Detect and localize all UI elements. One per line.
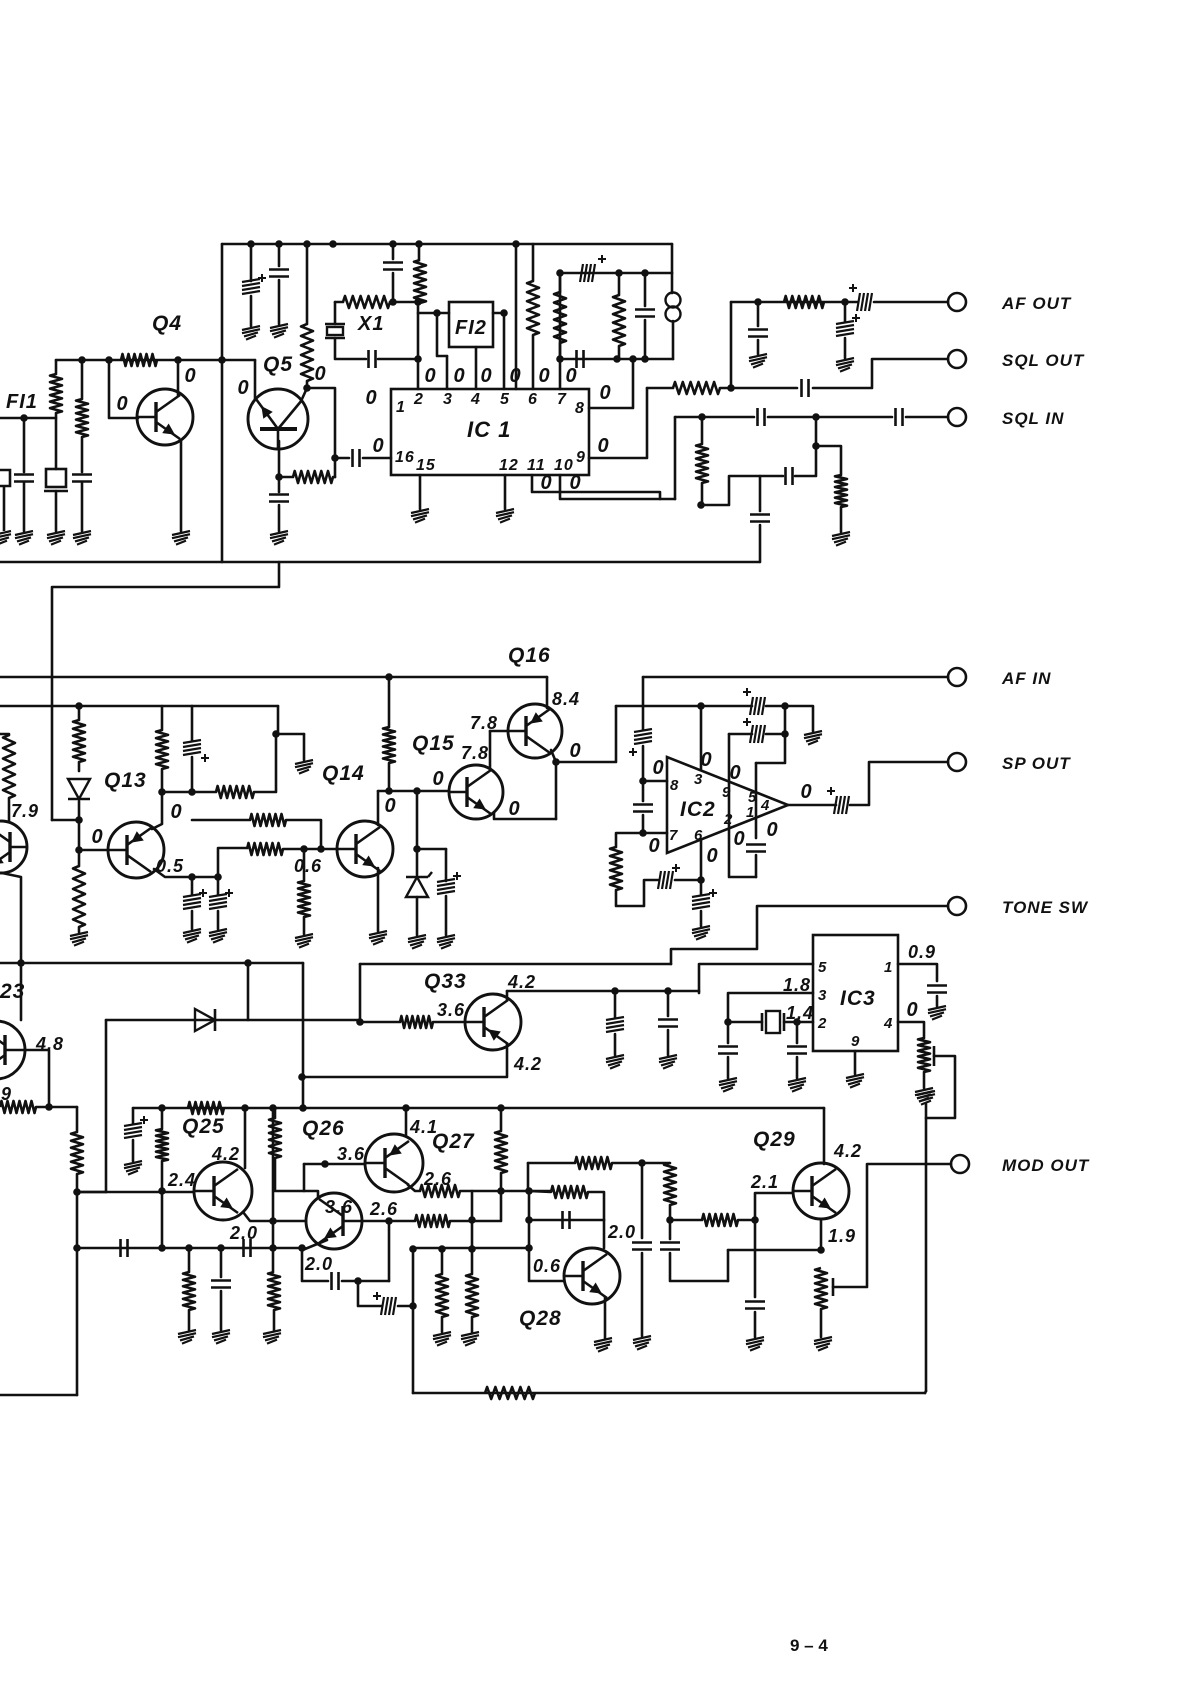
svg-text:2.0: 2.0	[607, 1222, 636, 1242]
wire AF OUT cap stub	[757, 302, 760, 326]
wire res to corner	[254, 734, 304, 792]
resistor x273	[268, 1272, 280, 1310]
wire Q26 base res row	[389, 1220, 415, 1223]
resistor x472	[466, 1274, 478, 1317]
wire cap to dot	[342, 1280, 389, 1283]
label 0.6 Q28	[533, 1256, 561, 1276]
pin 12 of IC1	[499, 457, 519, 474]
svg-text:IC3: IC3	[840, 987, 876, 1010]
junction x473 row1220	[468, 1216, 476, 1224]
svg-text:4.2: 4.2	[211, 1144, 240, 1164]
wire low row left	[77, 1247, 305, 1250]
test point 0 at Q5 base	[237, 377, 248, 399]
wire Q14 collector	[377, 791, 380, 825]
wire crystal right lead	[784, 1021, 797, 1024]
svg-text:Q15: Q15	[412, 732, 455, 755]
ground collector cap	[659, 1055, 677, 1069]
junction 4.1 row	[638, 1159, 646, 1167]
junction row1 right	[781, 702, 789, 710]
ground crystal right	[788, 1078, 806, 1092]
wire cap to ground	[754, 1312, 757, 1337]
wire resonator to ground	[55, 491, 58, 531]
pin 2 of IC3	[817, 1015, 827, 1032]
wire link to diode leg	[77, 1191, 106, 1194]
wire sql bottom cap stub	[759, 476, 762, 511]
resistor above FI1 resonator	[50, 374, 62, 413]
wire cap stub IC2	[642, 781, 645, 801]
svg-text:Q5: Q5	[263, 353, 293, 376]
capacitor Q26 emitter	[332, 1272, 339, 1290]
label Q26	[302, 1117, 345, 1140]
ground feedback	[295, 760, 313, 774]
junction tank row	[556, 355, 564, 363]
junction diode row	[413, 845, 421, 853]
capacitor to IC1 pin16	[353, 449, 360, 467]
wire resonator column	[55, 360, 58, 374]
wire row1 right	[766, 705, 785, 708]
svg-text:SP OUT: SP OUT	[1002, 754, 1071, 773]
junction Q5 emitter	[275, 473, 283, 481]
wire to ground	[220, 1291, 223, 1330]
svg-text:FI1: FI1	[6, 391, 38, 413]
ground second ecap	[209, 929, 227, 943]
svg-text:3: 3	[694, 771, 703, 788]
test point 0 at pin16	[372, 435, 383, 457]
svg-text:0: 0	[569, 740, 580, 762]
wire TONE SW	[671, 906, 948, 964]
junction at long vertical	[218, 356, 226, 364]
junction Q26 cap row	[354, 1277, 362, 1285]
wire to ground	[727, 1057, 730, 1078]
electrolytic capacitor second	[209, 889, 233, 909]
wire diode row left leg	[105, 1020, 108, 1192]
junction x529 cap row	[525, 1216, 533, 1224]
wire AF OUT ecap stub	[844, 302, 847, 322]
junction FI2 right	[500, 309, 508, 317]
wire ecap stub	[445, 849, 448, 881]
terminal MOD OUT	[951, 1155, 969, 1173]
wire res to dot	[669, 1205, 672, 1220]
resistor Q5 collector	[301, 324, 313, 381]
wire ecap column stub	[250, 244, 253, 281]
wire Q29 emitter	[820, 1219, 823, 1250]
wire output to SP OUT	[850, 762, 948, 805]
svg-text:0: 0	[906, 999, 917, 1021]
wire ground stem	[925, 1104, 928, 1118]
resistor feedback Q13	[216, 786, 254, 798]
wire box top	[192, 705, 278, 708]
wire SQL IN left	[675, 416, 754, 419]
pin 8 of IC2	[670, 777, 679, 794]
wire to ground	[441, 1317, 444, 1332]
wire diode to base	[78, 801, 81, 850]
capacitor Q28 base	[563, 1211, 570, 1229]
capacitor collector row	[658, 1020, 678, 1027]
wire to ground	[471, 1317, 474, 1332]
wire ecap to ground	[132, 1140, 135, 1161]
capacitor low row	[121, 1239, 128, 1257]
junction row2 right	[781, 730, 789, 738]
wire Q16 emitter link	[551, 750, 556, 762]
pin 3 of IC1	[443, 391, 453, 408]
wire rail to box	[515, 244, 518, 389]
svg-text:0: 0	[365, 387, 376, 409]
junction on bottom bus	[299, 1104, 307, 1112]
wire res to ground	[840, 507, 843, 532]
wire left border vertical	[221, 244, 224, 562]
capacitor SQL IN left	[758, 408, 765, 426]
test point 0 pin11	[540, 472, 551, 494]
wire emitter row corner	[727, 1250, 730, 1281]
resistor Q33 base	[400, 1016, 433, 1028]
test point 0 above IC1 pin	[565, 365, 576, 387]
wire emitter riser	[555, 762, 558, 819]
filter FI2	[449, 302, 493, 347]
test point 0 above IC1 pin	[538, 365, 549, 387]
transistor Q4	[137, 389, 193, 445]
wire top supply rail	[222, 243, 672, 246]
pin 11 of IC1	[527, 457, 546, 474]
wire pin5 feed	[699, 964, 813, 993]
svg-text:Q13: Q13	[104, 769, 147, 792]
wire emitter cap loop	[302, 1248, 328, 1281]
ground x472	[461, 1332, 479, 1346]
electrolytic capacitor bus end	[124, 1116, 148, 1138]
resistor Q4 base feed	[121, 354, 157, 366]
svg-text:0: 0	[116, 393, 127, 415]
resistor below row	[183, 1272, 195, 1310]
wire pin7 loop	[616, 833, 643, 847]
svg-text:7: 7	[557, 391, 567, 408]
transistor at left edge	[0, 821, 27, 873]
resistor x501	[495, 1131, 507, 1173]
label 3.6 Q27	[337, 1144, 365, 1164]
resistor Q25 base	[156, 1129, 168, 1161]
electrolytic capacitor AF IN column	[629, 729, 652, 756]
junction on top rail	[389, 240, 397, 248]
wire bottom row right	[413, 1247, 529, 1250]
wire loop bottom	[616, 880, 658, 906]
svg-text:0: 0	[508, 798, 519, 820]
resistor x670	[664, 1163, 676, 1205]
resistor Q29 emitter	[815, 1268, 827, 1309]
resistor in bus	[188, 1102, 224, 1114]
ground bus ecap	[124, 1161, 142, 1175]
junction diode feed	[244, 959, 252, 967]
wire cap stub	[23, 418, 26, 472]
wire emitter ecap stub	[191, 877, 194, 895]
svg-text:0: 0	[538, 365, 549, 387]
label 2.6 Q27	[423, 1169, 452, 1189]
wire x528 down	[527, 1163, 530, 1191]
junction tank top 3	[641, 269, 649, 277]
transistor Q27	[365, 1134, 423, 1192]
resistor SQL IN lower	[696, 444, 708, 483]
svg-text:1: 1	[884, 959, 893, 976]
wire pin2 row	[798, 1021, 813, 1024]
pin 1 of IC3	[884, 959, 893, 976]
electrolytic capacitor row2	[743, 718, 765, 743]
wire res to collector	[152, 769, 162, 829]
junction SQL OUT	[727, 384, 735, 392]
svg-text:0: 0	[652, 757, 663, 779]
ground collector row	[606, 1055, 624, 1069]
wire Q4 emitter to ground	[180, 440, 183, 531]
pin 6 of IC2	[694, 827, 703, 844]
label SQL IN	[1002, 409, 1064, 428]
label 3.6 Q26	[325, 1197, 353, 1217]
wire res to row	[388, 763, 391, 791]
wire collector row to pin5	[507, 990, 699, 993]
svg-text:Q4: Q4	[152, 312, 182, 335]
svg-text:1: 1	[396, 399, 406, 416]
capacitor SQL loop	[786, 467, 793, 485]
svg-text:2.0: 2.0	[229, 1223, 258, 1243]
test point 0 pin9	[597, 435, 608, 457]
capacitor below row	[211, 1281, 231, 1288]
capacitor left column	[72, 475, 92, 482]
resistor AF OUT	[784, 296, 824, 308]
junction on bottom bus	[497, 1104, 505, 1112]
wire pin9 column	[729, 734, 756, 877]
wire AF IN corner down	[642, 677, 645, 730]
svg-text:4: 4	[760, 797, 770, 814]
wire pin12 stub	[504, 475, 507, 509]
test point 0 IC2 output	[800, 781, 811, 803]
wire to ground 2	[667, 1030, 670, 1055]
wire bottom border of top section	[0, 561, 759, 564]
label 3.6 Q33	[437, 1000, 465, 1020]
test point 0 Q15 emitter	[508, 798, 519, 820]
svg-text:0: 0	[453, 365, 464, 387]
wire res tank top	[618, 273, 621, 295]
pin 2 of IC2	[723, 811, 733, 828]
resistor left edge collector	[3, 735, 15, 798]
wire row2	[729, 733, 752, 736]
capacitor tank bottom row	[577, 350, 584, 368]
junction on top rail	[275, 240, 283, 248]
capacitor tank	[635, 310, 655, 317]
wire base row corner	[303, 1164, 306, 1191]
pin 9 of IC2	[722, 784, 731, 801]
junction Q29 base	[751, 1216, 759, 1224]
wire res to ground	[303, 917, 306, 934]
svg-text:0: 0	[170, 801, 181, 823]
svg-text:TONE SW: TONE SW	[1002, 898, 1089, 917]
label 7.8 high	[470, 713, 498, 733]
wire Q33 emitter	[302, 1044, 507, 1077]
junction base row	[78, 356, 86, 364]
label 1.9 partial	[1, 1084, 12, 1104]
wire coil top	[671, 273, 674, 293]
svg-text:2: 2	[817, 1015, 827, 1032]
wire res to base dot	[738, 1219, 755, 1222]
svg-text:0: 0	[372, 435, 383, 457]
svg-text:Q26: Q26	[302, 1117, 345, 1140]
wire ecap to ground	[191, 911, 194, 929]
svg-text:2.0: 2.0	[304, 1254, 333, 1274]
wire Q25 collector	[244, 1108, 247, 1168]
label SP OUT	[1002, 754, 1071, 773]
crystal IC3	[762, 1011, 784, 1033]
wire ecap to rail column	[398, 1305, 413, 1308]
label 4.2 Q33 low	[513, 1054, 542, 1074]
wire AF IN right segment	[643, 676, 948, 679]
wire cap stub	[220, 1248, 223, 1277]
svg-text:2.4: 2.4	[167, 1170, 196, 1190]
test point 0 IC2 pin8	[652, 757, 663, 779]
junction rail riser top	[409, 1245, 417, 1253]
test point 0 Q16 emitter	[569, 740, 580, 762]
junction Q33 base	[356, 1018, 364, 1026]
wire Q4 base supply row	[56, 359, 255, 362]
wire cap stub 2	[667, 991, 670, 1016]
terminal AF IN	[948, 668, 966, 686]
junction base row 2	[105, 356, 113, 364]
junction crystal left	[724, 1018, 732, 1026]
test point 0 above IC1 pin	[453, 365, 464, 387]
resistor from AF IN	[383, 727, 395, 763]
crystal X1	[325, 324, 345, 338]
svg-text:6: 6	[528, 391, 538, 408]
label Q4	[152, 312, 182, 335]
ground pin4 res	[915, 1088, 933, 1102]
svg-text:4.2: 4.2	[507, 972, 536, 992]
pin 4 of IC2	[760, 797, 770, 814]
label FI1	[6, 391, 38, 413]
junction 2.6 row 2	[525, 1187, 533, 1195]
svg-text:9: 9	[576, 449, 586, 466]
svg-text:2.1: 2.1	[750, 1172, 779, 1192]
svg-text:1.9: 1.9	[828, 1226, 856, 1246]
pin 9 of IC3	[851, 1033, 860, 1050]
svg-text:15: 15	[416, 457, 436, 474]
resistor Q23 left	[0, 1101, 36, 1113]
test point 0 above IC2	[700, 749, 711, 771]
wire AF IN divider	[388, 677, 391, 727]
pin 5 of IC2	[748, 789, 757, 806]
junction tank top 1	[556, 269, 564, 277]
wire row to Q29 base res	[670, 1219, 702, 1222]
wire pin3 row	[728, 993, 813, 1022]
wire res to pin16 cap	[333, 476, 335, 479]
test point 0 IC2 pin7	[648, 835, 659, 857]
wire pin4 stub	[475, 347, 478, 389]
resistor tank	[613, 295, 625, 346]
svg-text:AF IN: AF IN	[1001, 669, 1051, 688]
label Q23 partial	[0, 980, 25, 1003]
test point 0 IC2 pin2	[733, 828, 744, 850]
junction on top rail	[512, 240, 520, 248]
wire pin2 stub	[418, 244, 421, 260]
wire emitter res lead	[279, 476, 293, 479]
wire cap column stub	[278, 244, 281, 266]
resistor left column	[71, 1132, 83, 1174]
wire SQL IN to pin rows	[674, 417, 677, 499]
wire cap to ground	[278, 280, 281, 324]
junction Q23 base	[45, 1103, 53, 1111]
wire x473 column	[471, 1191, 474, 1274]
pin 3 of IC3	[818, 987, 827, 1004]
svg-text:FI2: FI2	[455, 317, 487, 339]
test point 0 pin10	[569, 472, 580, 494]
wire Q13 emitter	[154, 869, 218, 877]
svg-text:0: 0	[314, 363, 325, 385]
transistor Q26	[306, 1193, 362, 1249]
capacitor IC2 left	[633, 805, 653, 812]
label MOD OUT	[1002, 1156, 1090, 1175]
electrolytic capacitor AF OUT	[849, 284, 872, 311]
ground AF OUT cap	[749, 354, 767, 368]
label Q16	[508, 644, 551, 667]
wire row2 right	[766, 733, 785, 736]
pin 3 of IC2	[694, 771, 703, 788]
label Q29	[753, 1128, 796, 1151]
svg-text:2.6: 2.6	[423, 1169, 452, 1189]
op-amp IC2	[667, 757, 788, 853]
wire second ecap column	[217, 877, 220, 895]
junction tank row 2	[613, 355, 621, 363]
svg-text:Q33: Q33	[424, 970, 467, 993]
junction AF OUT 1	[754, 298, 762, 306]
wire Q14 collector row	[378, 790, 449, 793]
electrolytic capacitor row1	[743, 688, 765, 715]
junction SQL IN 1	[812, 413, 820, 421]
wire diode to ground	[416, 897, 419, 935]
wire Q13 collector column top	[161, 706, 164, 730]
resistor Q13 left	[73, 720, 85, 762]
svg-text:Q29: Q29	[753, 1128, 796, 1151]
wire res stub	[188, 1248, 191, 1272]
wire base row left	[529, 1191, 551, 1192]
wire Q14 emitter	[377, 868, 380, 931]
test point 0 above IC1 pin	[424, 365, 435, 387]
wire sql cap loop	[702, 476, 783, 505]
junction low row 4	[298, 1244, 306, 1252]
wire Q23 collector	[20, 963, 23, 1020]
pin 6 of IC1	[528, 391, 538, 408]
junction pin6	[697, 876, 705, 884]
label Q15	[412, 732, 455, 755]
wire rail right riser	[925, 1391, 926, 1393]
svg-text:0: 0	[599, 382, 610, 404]
pin 16 of IC1	[395, 449, 415, 466]
test point 0 Q13 collector	[170, 801, 181, 823]
wire Q13 base res down	[78, 850, 81, 866]
wire Q14 bias stub	[303, 849, 306, 881]
wire pin9 row	[589, 388, 647, 458]
wire Q16 base	[490, 730, 508, 733]
wire base cap column	[754, 1220, 757, 1297]
wire cap tank bottom	[644, 320, 647, 359]
svg-text:8: 8	[575, 400, 585, 417]
test point 0 IC2 pin6	[706, 845, 717, 867]
junction pin8 IC2	[639, 777, 647, 785]
wire tap to MOD column	[926, 1056, 955, 1391]
ground Q14 bias	[295, 934, 313, 948]
pin 9 of IC1	[576, 449, 586, 466]
svg-text:0: 0	[648, 835, 659, 857]
label 1.9	[828, 1226, 856, 1246]
IC IC1	[391, 389, 589, 475]
ground FI1 resonator	[47, 531, 65, 545]
electrolytic capacitor Q13 box	[183, 740, 209, 762]
electrolytic capacitor Q26	[373, 1292, 396, 1315]
svg-text:3.6: 3.6	[437, 1000, 465, 1020]
label 2.0 Q28	[607, 1222, 636, 1242]
junction sql loop	[697, 501, 705, 509]
junction on top rail	[247, 240, 255, 248]
